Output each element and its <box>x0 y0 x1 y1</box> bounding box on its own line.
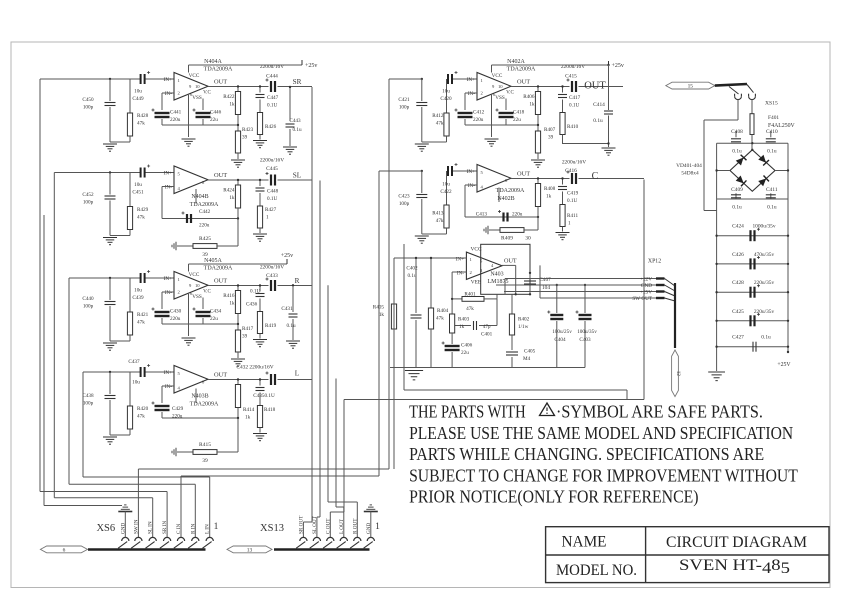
svg-text:N402A: N402A <box>507 59 525 65</box>
svg-text:IN-: IN- <box>165 290 172 296</box>
svg-text:10: 10 <box>195 283 200 288</box>
svg-text:30: 30 <box>525 236 531 242</box>
svg-text:IN-: IN- <box>468 183 475 189</box>
svg-text:220u: 220u <box>170 316 181 322</box>
svg-text:C IN: C IN <box>176 524 182 534</box>
svg-text:C429: C429 <box>172 406 184 412</box>
svg-text:R404: R404 <box>437 308 449 314</box>
svg-text:4: 4 <box>481 185 484 190</box>
svg-text:TDA2009A: TDA2009A <box>190 402 219 408</box>
svg-text:47k: 47k <box>137 121 145 127</box>
svg-text:R421: R421 <box>137 312 149 318</box>
svg-text:+25V: +25V <box>640 290 652 296</box>
svg-text:47p: 47p <box>483 325 491 330</box>
svg-text:C OUT: C OUT <box>325 518 331 534</box>
svg-text:VCC: VCC <box>189 73 200 79</box>
svg-text:C440: C440 <box>82 296 94 302</box>
svg-text:1: 1 <box>481 78 484 83</box>
svg-text:1: 1 <box>214 522 219 532</box>
svg-text:100p: 100p <box>399 105 410 111</box>
svg-text:0.1u: 0.1u <box>286 323 295 329</box>
svg-text:C441: C441 <box>170 110 182 116</box>
svg-text:SR OUT: SR OUT <box>298 515 304 534</box>
svg-text:2: 2 <box>470 270 473 275</box>
svg-text:SR: SR <box>293 78 302 86</box>
svg-text:2200u/16V: 2200u/16V <box>260 265 284 271</box>
svg-text:C433: C433 <box>266 273 278 279</box>
svg-text:1: 1 <box>178 78 181 83</box>
svg-text:1k: 1k <box>229 195 235 201</box>
svg-text:C425: C425 <box>732 309 744 315</box>
svg-text:XS13: XS13 <box>260 523 284 534</box>
svg-text:C413: C413 <box>476 212 488 218</box>
svg-text:CIRCUIT DIAGRAM: CIRCUIT DIAGRAM <box>666 534 807 551</box>
svg-text:L OUT: L OUT <box>339 518 345 534</box>
svg-text:R412: R412 <box>432 113 444 119</box>
svg-text:C432 2200u/16V: C432 2200u/16V <box>236 365 273 371</box>
svg-text:C416: C416 <box>565 168 577 174</box>
svg-text:C418: C418 <box>513 110 525 116</box>
svg-text:THE PARTS WITH: THE PARTS WITH <box>409 402 525 422</box>
svg-text:IN+: IN+ <box>456 256 464 262</box>
svg-text:C445: C445 <box>266 166 278 172</box>
svg-text:0.1u: 0.1u <box>292 127 301 133</box>
svg-text:V.C: V.C <box>203 289 211 295</box>
svg-text:+25v: +25v <box>305 63 317 69</box>
svg-text:C452: C452 <box>82 192 94 198</box>
svg-text:100p: 100p <box>83 304 94 310</box>
svg-text:R423: R423 <box>242 127 254 133</box>
svg-text:VCC: VCC <box>492 73 503 79</box>
svg-text:OUT: OUT <box>214 79 227 86</box>
svg-text:C426: C426 <box>732 252 744 258</box>
svg-text:R417: R417 <box>242 326 254 332</box>
svg-text:0.1u: 0.1u <box>761 335 771 341</box>
svg-text:C447: C447 <box>267 95 279 101</box>
svg-text:OUT: OUT <box>214 372 227 379</box>
svg-text:13: 13 <box>247 547 253 553</box>
svg-text:OUT: OUT <box>584 81 606 92</box>
svg-text:PRIOR NOTICE(ONLY FOR REFERENC: PRIOR NOTICE(ONLY FOR REFERENCE) <box>409 487 698 508</box>
svg-text:VD401-404: VD401-404 <box>676 163 702 169</box>
svg-text:3: 3 <box>480 268 483 273</box>
svg-text:N403: N403 <box>490 271 503 277</box>
svg-text:OUT: OUT <box>214 278 227 285</box>
svg-text:0.1u: 0.1u <box>593 118 603 124</box>
svg-text:VEE: VEE <box>471 279 482 285</box>
svg-text:IN+: IN+ <box>467 169 475 175</box>
svg-text:470u/35v: 470u/35v <box>754 252 775 258</box>
svg-text:C411: C411 <box>766 187 778 193</box>
svg-text:F401: F401 <box>768 115 779 121</box>
svg-text:47k: 47k <box>466 306 474 312</box>
svg-text:C444: C444 <box>266 74 278 80</box>
svg-text:39: 39 <box>202 458 208 464</box>
svg-text:N404B: N404B <box>191 194 208 200</box>
svg-text:C421: C421 <box>398 97 410 103</box>
svg-text:C405: C405 <box>524 349 536 355</box>
svg-text:0.1U: 0.1U <box>267 103 277 109</box>
svg-text:2: 2 <box>481 91 484 96</box>
svg-text:SR IN: SR IN <box>162 521 168 534</box>
svg-text:C414: C414 <box>593 102 605 108</box>
svg-text:VSS: VSS <box>192 95 202 101</box>
svg-text:TDA2009A: TDA2009A <box>507 67 536 73</box>
svg-text:R414: R414 <box>243 407 255 413</box>
svg-text:39: 39 <box>242 135 248 141</box>
svg-text:C449: C449 <box>132 96 144 102</box>
svg-text:100p: 100p <box>83 105 94 111</box>
svg-text:C408: C408 <box>731 129 743 135</box>
svg-text:R413: R413 <box>432 211 444 217</box>
svg-text:OUT: OUT <box>214 172 227 179</box>
svg-text:1: 1 <box>178 277 181 282</box>
svg-text:22u: 22u <box>210 117 218 123</box>
svg-text:MODEL NO.: MODEL NO. <box>556 562 637 579</box>
svg-text:C427: C427 <box>732 335 744 341</box>
svg-text:220u: 220u <box>512 212 523 218</box>
svg-text:1k: 1k <box>245 415 251 421</box>
svg-text:47k: 47k <box>137 414 145 420</box>
svg-text:R411: R411 <box>567 213 578 219</box>
svg-text:39: 39 <box>242 334 248 340</box>
svg-text:OUT: OUT <box>517 171 530 178</box>
svg-text:SUBJECT TO CHANGE FOR IMPROVEM: SUBJECT TO CHANGE FOR IMPROVEMENT WITHOU… <box>409 465 798 485</box>
svg-text:R415: R415 <box>199 442 211 448</box>
svg-text:XS6: XS6 <box>96 523 115 534</box>
svg-text:SL OUT: SL OUT <box>312 515 318 534</box>
svg-text:47k: 47k <box>436 121 444 127</box>
svg-text:1k: 1k <box>546 194 552 200</box>
svg-text:IN+: IN+ <box>164 276 172 282</box>
svg-text:C419: C419 <box>567 191 579 197</box>
svg-text:100p: 100p <box>83 401 94 407</box>
svg-text:TDA2009A: TDA2009A <box>204 67 233 73</box>
svg-text:12: 12 <box>675 371 681 377</box>
svg-text:100p: 100p <box>83 200 94 206</box>
svg-text:R422: R422 <box>223 94 235 100</box>
svg-text:54D8x4: 54D8x4 <box>681 171 699 177</box>
svg-text:PARTS WHILE CHANGING. SPECIFIC: PARTS WHILE CHANGING. SPECIFICATIONS ARE <box>409 444 764 464</box>
svg-text:1/1w: 1/1w <box>518 324 529 330</box>
svg-text:VSS: VSS <box>495 95 505 101</box>
svg-text:R401: R401 <box>464 292 476 298</box>
svg-text:L IN: L IN <box>205 524 211 534</box>
svg-text:+25v: +25v <box>612 63 624 69</box>
svg-text:1k: 1k <box>379 312 385 318</box>
svg-text:IN-: IN- <box>165 384 172 390</box>
svg-text:M4: M4 <box>523 356 531 362</box>
svg-text:R406: R406 <box>523 94 535 100</box>
svg-text:C428: C428 <box>732 280 744 286</box>
svg-text:GND: GND <box>641 283 652 289</box>
svg-text:100u/25v: 100u/25v <box>552 329 572 335</box>
svg-text:220u: 220u <box>170 117 181 123</box>
svg-text:0.1u: 0.1u <box>732 149 742 155</box>
svg-text:R403: R403 <box>458 317 470 323</box>
svg-text:C412: C412 <box>473 110 485 116</box>
svg-text:10: 10 <box>498 84 503 89</box>
svg-text:22u: 22u <box>461 350 469 356</box>
svg-text:R425: R425 <box>199 236 211 242</box>
svg-text:R428: R428 <box>137 113 149 119</box>
svg-text:0.1U: 0.1U <box>250 289 260 295</box>
svg-text:N402B: N402B <box>497 196 514 202</box>
svg-text:R: R <box>295 277 300 285</box>
svg-text:R429: R429 <box>137 207 149 213</box>
svg-text:TDA2009A: TDA2009A <box>496 188 525 194</box>
svg-text:10u: 10u <box>134 182 142 188</box>
svg-text:PLEASE USE THE SAME MODEL AND: PLEASE USE THE SAME MODEL AND SPECIFICAT… <box>409 423 793 443</box>
svg-text:R416: R416 <box>223 293 235 299</box>
svg-text:+25V: +25V <box>777 362 791 368</box>
svg-text:39: 39 <box>548 135 554 141</box>
svg-text:C407: C407 <box>539 277 551 283</box>
svg-text:C401: C401 <box>481 332 493 338</box>
svg-text:220u: 220u <box>199 223 210 229</box>
svg-text:100p: 100p <box>399 201 410 207</box>
svg-text:1k: 1k <box>229 301 235 307</box>
svg-text:220u: 220u <box>473 117 484 123</box>
svg-text:+22V: +22V <box>640 277 652 283</box>
svg-text:SL: SL <box>293 172 301 180</box>
svg-text:4: 4 <box>178 186 181 191</box>
svg-text:C448: C448 <box>267 189 279 195</box>
svg-text:22u: 22u <box>210 316 218 322</box>
svg-text:IN-: IN- <box>468 91 475 97</box>
svg-text:C: C <box>592 171 599 182</box>
svg-text:TDA2009A: TDA2009A <box>190 202 219 208</box>
svg-text:0.1U: 0.1U <box>569 103 579 109</box>
svg-text:C437: C437 <box>128 359 140 365</box>
svg-text:N405A: N405A <box>204 258 222 264</box>
svg-text:SVEN HT-485: SVEN HT-485 <box>679 557 790 577</box>
svg-text:C442: C442 <box>199 209 211 215</box>
svg-text:R409: R409 <box>501 236 513 242</box>
svg-text:C423: C423 <box>398 194 410 200</box>
svg-text:C415: C415 <box>565 74 577 80</box>
svg-text:9: 9 <box>189 84 192 89</box>
svg-text:10u: 10u <box>134 288 142 294</box>
svg-text:C422: C422 <box>440 189 452 195</box>
svg-text:IN-: IN- <box>165 91 172 97</box>
svg-text:IN+: IN+ <box>164 370 172 376</box>
svg-text:R419: R419 <box>265 323 277 329</box>
svg-text:IN-: IN- <box>457 270 464 276</box>
svg-text:15: 15 <box>688 84 694 90</box>
svg-text:R410: R410 <box>567 124 579 130</box>
svg-text:1: 1 <box>266 215 269 221</box>
svg-text:N403B: N403B <box>191 394 208 400</box>
svg-text:2200u/16V: 2200u/16V <box>562 160 586 166</box>
svg-text:100u/35v: 100u/35v <box>577 329 597 335</box>
svg-text:104: 104 <box>542 285 550 291</box>
svg-text:22u: 22u <box>513 117 521 123</box>
svg-text:R402: R402 <box>518 317 530 323</box>
svg-text:6: 6 <box>63 547 66 553</box>
svg-text:1: 1 <box>470 257 473 262</box>
svg-text:1k: 1k <box>459 324 465 330</box>
svg-text:·SYMBOL ARE SAFE PARTS.: ·SYMBOL ARE SAFE PARTS. <box>556 402 763 422</box>
svg-text:10u: 10u <box>442 182 450 188</box>
svg-text:0.1u: 0.1u <box>767 149 777 155</box>
svg-text:C443: C443 <box>289 118 301 124</box>
svg-text:9: 9 <box>492 84 495 89</box>
svg-text:10u: 10u <box>132 380 140 386</box>
svg-text:C450: C450 <box>82 97 94 103</box>
svg-text:OUT: OUT <box>517 79 530 86</box>
svg-text:R420: R420 <box>137 406 149 412</box>
svg-text:5: 5 <box>178 172 181 177</box>
svg-text:0.1U: 0.1U <box>567 198 577 204</box>
svg-text:1: 1 <box>568 221 571 227</box>
svg-text:C403: C403 <box>579 337 591 343</box>
svg-text:0.1u: 0.1u <box>732 205 742 211</box>
svg-text:V.C: V.C <box>506 90 514 96</box>
svg-text:VCC: VCC <box>189 272 200 278</box>
svg-text:47k: 47k <box>436 316 444 322</box>
svg-text:2: 2 <box>178 91 181 96</box>
svg-text:10: 10 <box>195 84 200 89</box>
svg-text:L: L <box>295 370 299 378</box>
svg-text:5: 5 <box>480 259 483 264</box>
svg-text:47k: 47k <box>137 215 145 221</box>
svg-text:R OUT: R OUT <box>352 518 358 534</box>
svg-text:C434: C434 <box>210 309 222 315</box>
svg-text:XS15: XS15 <box>765 101 778 107</box>
svg-text:N404A: N404A <box>204 59 222 65</box>
svg-text:5: 5 <box>178 371 181 376</box>
svg-text:TDA2009A: TDA2009A <box>204 266 233 272</box>
svg-text:IN+: IN+ <box>164 170 172 176</box>
svg-text:R408: R408 <box>544 186 556 192</box>
svg-text:47k: 47k <box>436 218 444 224</box>
svg-text:IN-: IN- <box>165 184 172 190</box>
svg-text:2200u/16V: 2200u/16V <box>260 158 284 164</box>
svg-text:XP12: XP12 <box>648 259 661 265</box>
svg-text:8: 8 <box>505 178 508 183</box>
svg-text:OUT: OUT <box>504 258 517 265</box>
svg-text:C438: C438 <box>82 393 94 399</box>
svg-text:R IN: R IN <box>190 524 196 534</box>
svg-text:SW OUT: SW OUT <box>632 296 652 302</box>
svg-text:C446: C446 <box>210 110 222 116</box>
svg-text:R426: R426 <box>265 124 277 130</box>
svg-text:0.1u: 0.1u <box>767 205 777 211</box>
svg-text:47k: 47k <box>137 320 145 326</box>
svg-text:VCC: VCC <box>470 247 481 253</box>
svg-text:+25v: +25v <box>281 253 293 259</box>
svg-text:C436: C436 <box>246 302 258 308</box>
svg-text:5: 5 <box>481 170 484 175</box>
svg-text:1k: 1k <box>529 102 535 108</box>
svg-text:1000u/35v: 1000u/35v <box>752 224 775 230</box>
svg-text:SW IN: SW IN <box>133 519 139 534</box>
svg-text:4: 4 <box>491 263 494 268</box>
svg-text:C424: C424 <box>732 224 744 230</box>
svg-text:4: 4 <box>178 386 181 391</box>
svg-text:C431: C431 <box>281 306 293 312</box>
svg-text:SL IN: SL IN <box>148 521 154 534</box>
svg-text:0.1U: 0.1U <box>267 196 277 202</box>
svg-text:220u/35v: 220u/35v <box>754 309 775 315</box>
svg-text:C420: C420 <box>440 96 452 102</box>
svg-text:C4350.1U: C4350.1U <box>253 393 275 399</box>
svg-text:10u: 10u <box>134 89 142 95</box>
svg-text:R427: R427 <box>265 207 277 213</box>
svg-text:1: 1 <box>375 522 380 532</box>
svg-text:2: 2 <box>178 290 181 295</box>
svg-text:V.C: V.C <box>203 90 211 96</box>
svg-text:C417: C417 <box>569 95 581 101</box>
svg-text:R418: R418 <box>264 407 276 413</box>
svg-text:C451: C451 <box>132 190 144 196</box>
svg-text:C410: C410 <box>766 129 778 135</box>
svg-text:R424: R424 <box>223 188 235 194</box>
svg-text:C439: C439 <box>132 295 144 301</box>
svg-text:R407: R407 <box>544 127 556 133</box>
svg-text:C430: C430 <box>170 309 182 315</box>
svg-text:IN+: IN+ <box>467 77 475 83</box>
svg-text:10u: 10u <box>442 89 450 95</box>
svg-text:220u: 220u <box>172 414 183 420</box>
svg-text:9: 9 <box>189 283 192 288</box>
svg-text:NAME: NAME <box>562 534 607 551</box>
svg-text:220u/35v: 220u/35v <box>754 280 775 286</box>
svg-text:VSS: VSS <box>192 294 202 300</box>
svg-text:C409: C409 <box>731 187 743 193</box>
svg-text:C406: C406 <box>461 343 473 349</box>
svg-text:IN+: IN+ <box>164 77 172 83</box>
svg-text:C404: C404 <box>554 337 566 343</box>
svg-text:1k: 1k <box>229 102 235 108</box>
